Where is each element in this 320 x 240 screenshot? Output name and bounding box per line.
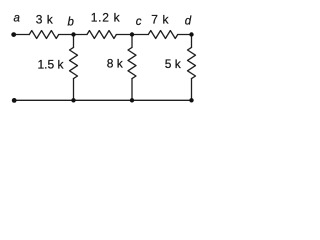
terminal bottom-left dot (12, 98, 17, 103)
wire R4 to bottom rail (73, 79, 75, 101)
svg-text:c: c (136, 16, 142, 28)
terminal a dot (11, 32, 16, 37)
svg-text:7 k: 7 k (151, 12, 169, 26)
svg-text:3 k: 3 k (36, 12, 54, 26)
resistor 1.2k (87, 31, 116, 39)
wire R6 to bottom rail (191, 79, 193, 101)
svg-text:b: b (68, 16, 75, 28)
wire R3 to node d (178, 34, 192, 36)
wire node b down (73, 35, 75, 48)
svg-text:d: d (185, 16, 192, 28)
junction dot b bottom (71, 98, 75, 102)
svg-text:5 k: 5 k (165, 57, 182, 71)
wire a to R1 (14, 34, 30, 36)
wire R5 to bottom rail (131, 79, 133, 101)
svg-text:1.2 k: 1.2 k (91, 10, 121, 24)
resistor 1.5k (70, 47, 78, 78)
svg-text:a: a (14, 12, 20, 24)
svg-text:1.5 k: 1.5 k (38, 57, 65, 71)
resistor 5k (188, 47, 196, 78)
wire R2 to node c (116, 34, 148, 36)
resistor 3k (29, 31, 58, 39)
bottom rail wire (14, 99, 191, 101)
resistor 7k (148, 31, 177, 39)
junction dot c bottom (130, 98, 134, 102)
wire node d down (191, 35, 193, 48)
wire R1 to node b (59, 34, 87, 36)
node b junction dot (71, 32, 75, 36)
wire node c down (131, 35, 133, 48)
node d junction dot (189, 32, 193, 36)
resistor 8k (128, 47, 136, 78)
node c junction dot (130, 32, 134, 36)
svg-text:8 k: 8 k (107, 57, 124, 71)
junction dot d bottom (189, 98, 193, 102)
